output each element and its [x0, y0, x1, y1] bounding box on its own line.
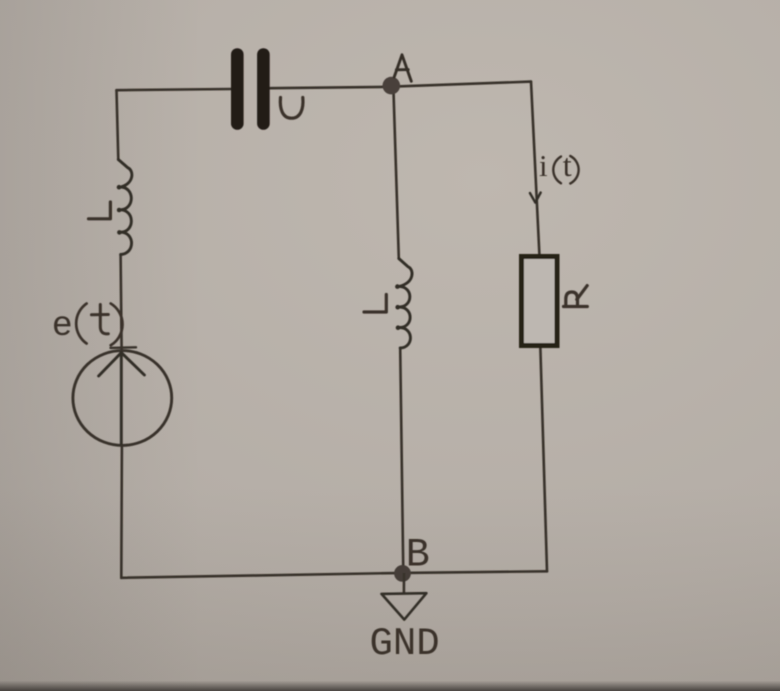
svg-text:e: e	[52, 306, 73, 346]
svg-text:B: B	[406, 533, 430, 578]
svg-text:i: i	[539, 148, 548, 183]
svg-text:t: t	[563, 147, 572, 183]
svg-text:GND: GND	[370, 622, 440, 666]
